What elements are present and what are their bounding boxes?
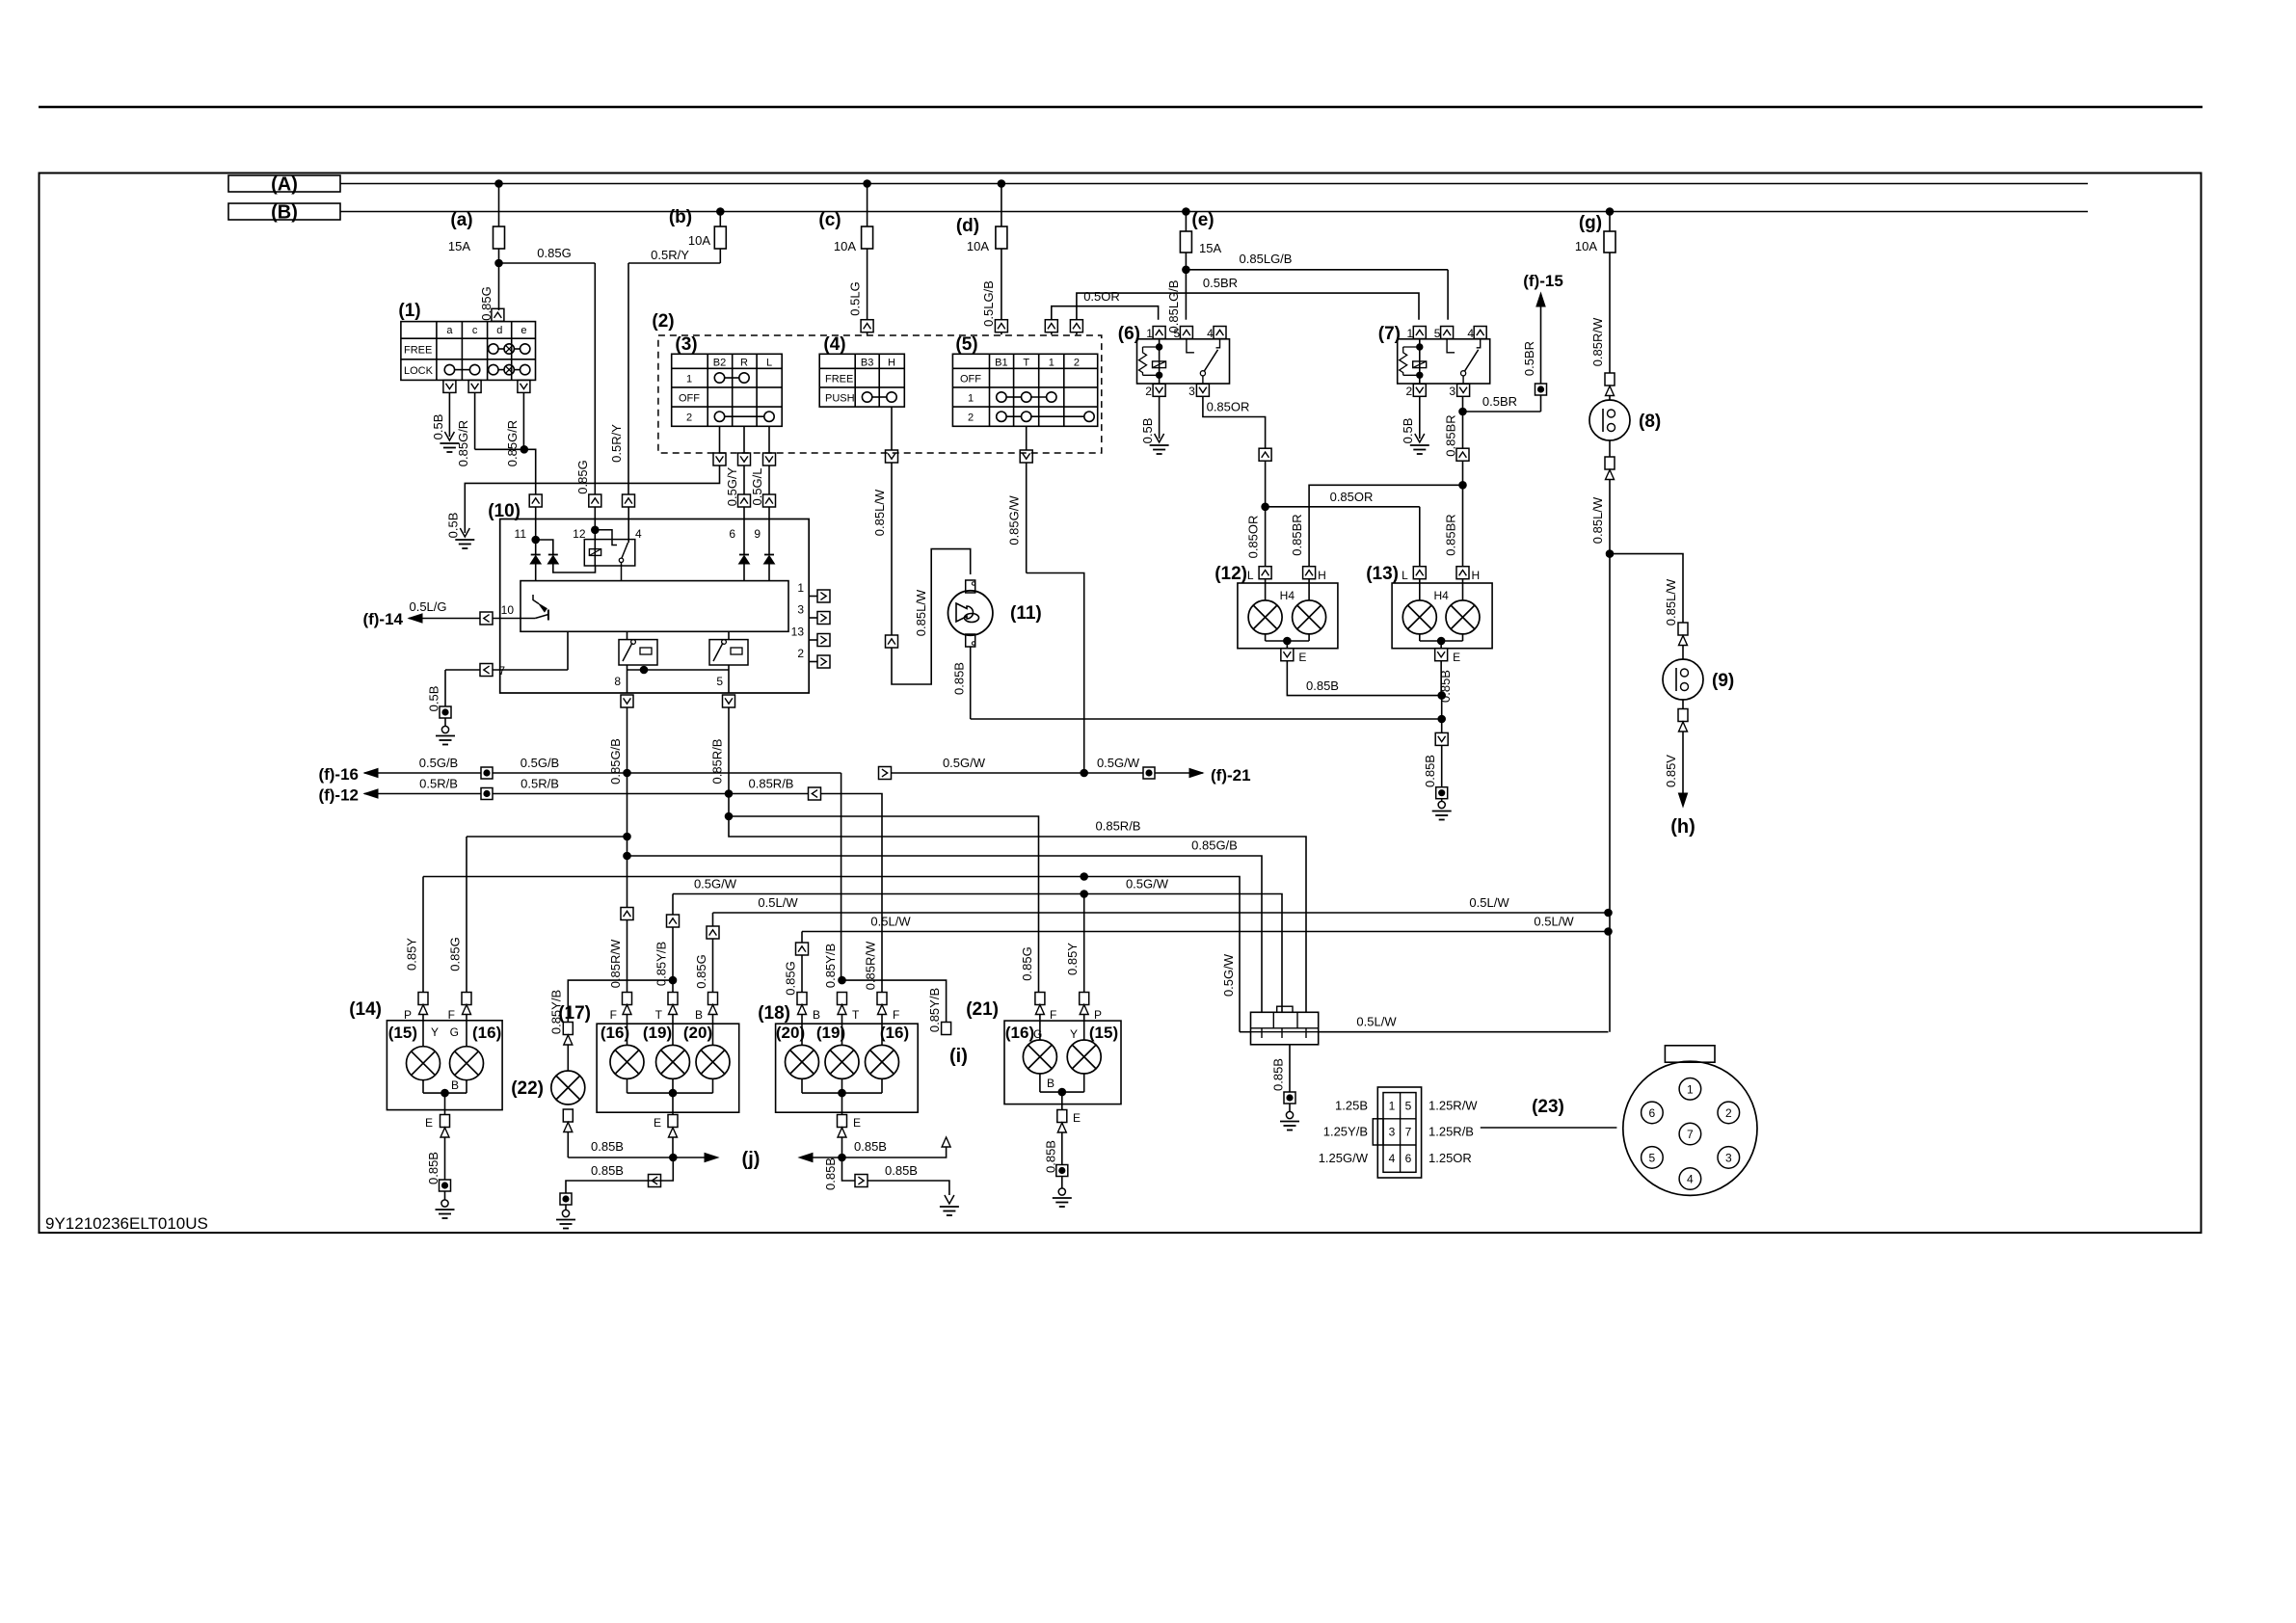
svg-text:c: c: [472, 325, 478, 336]
row R2 0.5G/W to lamp (17) T and block: [673, 894, 1282, 1013]
svg-text:H4: H4: [1280, 589, 1295, 602]
bus (B) wire: [340, 211, 2088, 213]
svg-text:(20): (20): [776, 1024, 805, 1042]
wire branch to lamp (18) T: [841, 773, 842, 980]
svg-text:0.85L/W: 0.85L/W: [872, 489, 887, 536]
ground under lamp unit 21: [1058, 1188, 1065, 1195]
wire 0.85Y down to lamp (21) P: [1083, 894, 1085, 994]
svg-text:1: 1: [1687, 1082, 1694, 1096]
svg-text:10A: 10A: [1575, 239, 1597, 253]
svg-text:0.85G/R: 0.85G/R: [456, 420, 470, 466]
svg-text:(13): (13): [1366, 564, 1399, 584]
svg-text:0.85OR: 0.85OR: [1246, 516, 1261, 559]
ground under flasher pin7: [441, 726, 448, 732]
svg-text:(e): (e): [1191, 210, 1214, 230]
svg-text:0.85B: 0.85B: [885, 1163, 918, 1178]
connector block: [1251, 1012, 1319, 1045]
svg-text:0.5G/B: 0.5G/B: [419, 756, 458, 770]
svg-text:0.85G/W: 0.85G/W: [1007, 495, 1022, 545]
wire 0.85G to lamp (18) B: [801, 932, 803, 944]
headlight (13) E junction: [1419, 634, 1421, 641]
wire 0.85L/W horn switch to horn: [891, 463, 893, 635]
svg-text:0.5L/W: 0.5L/W: [758, 895, 798, 910]
svg-text:(i): (i): [949, 1046, 968, 1067]
svg-text:3: 3: [1188, 385, 1195, 398]
row to lamp (14) F: [467, 836, 627, 838]
wire 0.85B headlight (13) E to ground: [1440, 661, 1442, 696]
fuse (e) 15A: [1183, 208, 1190, 216]
svg-text:10A: 10A: [834, 239, 856, 253]
flasher internal relay: [584, 540, 635, 566]
row 0.5L/W upper: [713, 912, 1609, 914]
svg-text:(3): (3): [675, 334, 697, 355]
wire 0.5B relay(6) pin2 to ground: [1159, 397, 1161, 439]
flasher right pin connectors 1 3 13 2: [809, 596, 817, 598]
svg-text:0.85Y/B: 0.85Y/B: [654, 942, 669, 986]
svg-text:11: 11: [515, 527, 527, 541]
key switch (1) table: [401, 322, 536, 381]
lamp (15) Y: [422, 1015, 424, 1047]
svg-text:(16): (16): [472, 1024, 501, 1042]
svg-text:H: H: [888, 358, 895, 369]
svg-text:0.85OR: 0.85OR: [1207, 400, 1250, 414]
svg-text:0.85Y: 0.85Y: [1065, 943, 1080, 975]
svg-text:0.85B: 0.85B: [591, 1163, 624, 1178]
lamp unit (17) box: [597, 1024, 739, 1112]
svg-text:2: 2: [1074, 358, 1080, 369]
svg-text:(5): (5): [955, 334, 977, 355]
svg-text:0.85V: 0.85V: [1664, 755, 1678, 787]
wire 0.85BR to headlight (12) H: [1309, 485, 1462, 566]
fuse (d) 10A: [998, 180, 1005, 188]
svg-text:7: 7: [498, 664, 505, 678]
bus (A) wire: [340, 183, 2088, 185]
svg-text:E: E: [425, 1116, 433, 1130]
svg-text:d: d: [496, 325, 502, 336]
svg-text:5: 5: [716, 675, 723, 688]
svg-text:0.85BR: 0.85BR: [1444, 514, 1458, 555]
lamp (16) G: [466, 1015, 467, 1047]
flasher pin 12 to internal relay: [594, 507, 596, 530]
relay (7) coil: [1419, 339, 1421, 347]
switch (5) col-1 connector to 0.5OR: [1045, 320, 1057, 333]
page rule: [39, 106, 2203, 109]
switch (5) row-2 contacts: [997, 412, 1006, 421]
svg-text:0.5B: 0.5B: [1140, 418, 1155, 444]
svg-text:OFF: OFF: [679, 393, 700, 405]
svg-text:(8): (8): [1639, 412, 1661, 432]
switch (5) T output: [1026, 426, 1028, 450]
svg-text:0.5BR: 0.5BR: [1482, 394, 1517, 409]
svg-text:B2: B2: [713, 358, 726, 369]
flasher bottom internal relays: [619, 640, 657, 665]
wire 0.85L/W below (8): [1609, 480, 1611, 554]
lamps (20)(19)(16) in unit 18: [801, 1015, 803, 1046]
fuse (c) 10A: [864, 180, 871, 188]
headlight (12) box: [1238, 583, 1338, 649]
wire 0.85V to (h): [1682, 732, 1684, 800]
svg-text:(22): (22): [511, 1078, 544, 1099]
branch to lamp (22): [568, 980, 673, 1022]
svg-text:1.25R/W: 1.25R/W: [1428, 1099, 1478, 1113]
svg-text:2: 2: [968, 412, 974, 424]
switch (3) row-1 contacts: [714, 373, 724, 383]
wire 0.85LG/B fuse(e) to relay(6) pin5: [1185, 270, 1187, 320]
row 0.85G/B: [624, 852, 631, 860]
wire 0.5G/W to (f)-21: [879, 767, 892, 780]
svg-text:0.85L/W: 0.85L/W: [1664, 578, 1678, 625]
svg-text:(f)-12: (f)-12: [318, 786, 359, 805]
svg-text:(18): (18): [758, 1003, 790, 1024]
svg-text:T: T: [852, 1008, 860, 1022]
wire 0.85R/W pin8 wire continues to (17) F: [627, 773, 628, 908]
svg-text:0.85Y: 0.85Y: [405, 938, 419, 971]
flasher pin 6/9 diodes: [743, 507, 745, 555]
svg-text:6: 6: [729, 527, 735, 541]
lamp unit 18 E: [838, 1115, 847, 1128]
lamp (14) terminals: [418, 993, 428, 1005]
svg-text:B: B: [451, 1078, 459, 1092]
svg-text:(g): (g): [1579, 213, 1602, 233]
wire 0.85OR to headlight (13) L: [1266, 506, 1420, 508]
svg-text:(15): (15): [388, 1024, 417, 1042]
svg-text:0.85G/B: 0.85G/B: [608, 738, 623, 785]
svg-text:(11): (11): [1010, 603, 1042, 624]
svg-text:a: a: [446, 325, 453, 336]
wire 0.5B flasher pin7 to ground: [445, 669, 480, 671]
svg-text:0.85G: 0.85G: [575, 460, 590, 493]
svg-text:0.85L/W: 0.85L/W: [914, 589, 928, 636]
svg-text:(16): (16): [601, 1024, 629, 1042]
wire 0.85LG/B fuse(e) to relay(7) pin5: [1186, 269, 1448, 271]
wire 0.5BR to (f)-15: [1463, 411, 1541, 412]
ground under B2 wire: [460, 528, 469, 537]
light switch (5) table: [952, 354, 1097, 426]
svg-text:H: H: [1472, 569, 1481, 582]
svg-text:2: 2: [1725, 1106, 1732, 1120]
flasher pin 4 wire: [627, 507, 629, 543]
headlight (13) connectors L H: [1413, 567, 1426, 579]
svg-text:10: 10: [501, 603, 515, 617]
wire 0.85B (18) E to (i) pin: [842, 1147, 947, 1157]
svg-text:0.5LG/B: 0.5LG/B: [981, 280, 996, 327]
ground under lamp (14): [441, 1200, 448, 1207]
svg-text:0.85G/R: 0.85G/R: [505, 420, 520, 466]
svg-text:2: 2: [686, 412, 692, 424]
svg-text:0.5BR: 0.5BR: [1203, 276, 1238, 290]
ground under relay (6): [1155, 434, 1164, 442]
svg-text:(1): (1): [398, 301, 420, 321]
relay (7) contact: [1447, 339, 1455, 353]
svg-text:T: T: [1023, 358, 1029, 369]
svg-text:0.5G/W: 0.5G/W: [1126, 877, 1169, 891]
key switch (1) FREE row contacts: [489, 344, 498, 354]
wire 0.85OR to headlight (12) L: [1265, 507, 1267, 567]
wire 0.85B (18) to (j) arrow: [813, 1157, 842, 1158]
ground under lamp unit 17: [562, 1210, 569, 1216]
svg-text:G: G: [450, 1025, 459, 1039]
svg-text:1.25Y/B: 1.25Y/B: [1323, 1125, 1368, 1139]
svg-text:0.85R/W: 0.85R/W: [1590, 317, 1605, 366]
svg-text:0.5OR: 0.5OR: [1083, 289, 1120, 304]
svg-text:E: E: [1453, 651, 1460, 664]
headlight (13) box: [1392, 583, 1492, 649]
svg-text:E: E: [654, 1116, 661, 1130]
svg-text:(19): (19): [643, 1024, 672, 1042]
svg-text:3: 3: [1725, 1151, 1732, 1164]
svg-text:E: E: [1073, 1111, 1081, 1125]
ground under key switch: [444, 432, 454, 440]
svg-text:B: B: [1047, 1077, 1055, 1090]
wire 0.85Y/B lamp (18) T branch to (i): [839, 976, 846, 984]
svg-text:R: R: [740, 358, 748, 369]
svg-text:5: 5: [1649, 1151, 1656, 1164]
svg-text:(j): (j): [742, 1149, 761, 1170]
wire 0.85BR relay(7) pin3 down: [1462, 412, 1464, 448]
svg-text:6: 6: [1405, 1152, 1412, 1165]
wire 0.85Y/B to lamp (17) T: [672, 894, 674, 916]
svg-text:FREE: FREE: [404, 345, 432, 357]
wire 0.5R/Y fuse(b) to flasher pin4: [628, 262, 720, 264]
svg-text:0.85G/B: 0.85G/B: [1191, 838, 1238, 853]
wire 0.85B to (j): [673, 1157, 712, 1158]
switch (3) row-2 contacts: [714, 412, 724, 421]
lamp unit (18) box: [776, 1024, 919, 1112]
switch (4) PUSH contacts: [862, 392, 871, 402]
svg-text:(f)-14: (f)-14: [362, 610, 403, 628]
svg-text:0.85R/W: 0.85R/W: [864, 941, 878, 990]
row 0.85R/B right segment: [729, 816, 1306, 1012]
flasher pin 11 diodes: [535, 507, 537, 540]
wire 0.85B headlight (12) E: [1287, 661, 1441, 696]
wire 0.85G/R key e: [522, 392, 524, 449]
svg-text:0.85B: 0.85B: [823, 1157, 838, 1190]
flasher pin 10 connector to (f)-14: [480, 612, 493, 625]
wire 0.85B horn to ground bus: [970, 647, 972, 719]
svg-text:5: 5: [1174, 327, 1181, 340]
row R1 to lamp (14) P and block: [423, 877, 1240, 1032]
svg-text:2: 2: [797, 647, 804, 660]
svg-text:F: F: [1050, 1008, 1056, 1022]
flasher (10) top connectors: [529, 494, 542, 507]
svg-text:4: 4: [1389, 1152, 1396, 1165]
svg-text:F: F: [610, 1008, 617, 1022]
lamp unit 21 B junction: [1039, 1074, 1041, 1092]
svg-text:(10): (10): [488, 501, 521, 521]
svg-text:0.85B: 0.85B: [1271, 1058, 1286, 1091]
headlight (13) lamps: [1419, 579, 1421, 600]
svg-text:0.85BR: 0.85BR: [1290, 514, 1304, 555]
wire from (9) branch down to lamps rows: [1609, 554, 1611, 1032]
svg-text:5: 5: [1434, 327, 1441, 340]
wire 0.85BR to headlight (13) H: [1462, 485, 1464, 566]
svg-text:7: 7: [1405, 1126, 1412, 1139]
svg-text:F: F: [448, 1008, 455, 1022]
svg-text:0.85G: 0.85G: [694, 954, 708, 988]
connector (23) lead line: [1481, 1127, 1617, 1129]
flasher pin 7 connector: [480, 664, 493, 677]
lamps (16)(19)(20) in unit 17: [627, 1015, 628, 1046]
relay (7) pin connectors: [1413, 327, 1426, 339]
svg-text:(21): (21): [966, 999, 999, 1020]
svg-text:0.5G/W: 0.5G/W: [694, 877, 737, 891]
svg-text:0.5BR: 0.5BR: [1522, 341, 1536, 376]
svg-text:P: P: [404, 1008, 412, 1022]
svg-text:1: 1: [1146, 327, 1153, 340]
svg-text:P: P: [1094, 1008, 1102, 1022]
svg-text:0.85B: 0.85B: [952, 662, 967, 695]
headlight (12) E junction: [1265, 634, 1267, 641]
svg-text:2: 2: [1145, 385, 1152, 398]
svg-text:(2): (2): [652, 311, 674, 332]
wire 0.85G/W light switch T down: [1026, 463, 1028, 573]
svg-text:L: L: [1402, 569, 1408, 582]
svg-text:H4: H4: [1433, 589, 1449, 602]
svg-text:(d): (d): [956, 216, 979, 236]
connector above light switch (5) B1: [995, 320, 1007, 333]
svg-text:7: 7: [1687, 1128, 1694, 1141]
horn switch (4) table: [819, 354, 904, 407]
wire 0.85G/B from pin 8: [627, 707, 628, 773]
svg-text:B3: B3: [861, 358, 873, 369]
svg-text:H: H: [1318, 569, 1326, 582]
svg-text:0.5B: 0.5B: [1401, 418, 1415, 444]
bus label (A): [228, 175, 340, 192]
svg-text:1: 1: [1049, 358, 1055, 369]
svg-text:G: G: [1033, 1027, 1042, 1041]
fuse (b) 10A: [717, 208, 725, 216]
lamp (18) terminals B T F: [797, 993, 807, 1005]
svg-text:5: 5: [1405, 1100, 1412, 1113]
svg-text:B: B: [813, 1008, 820, 1022]
lamp unit (14) box: [387, 1021, 502, 1110]
bus label (B): [228, 203, 340, 220]
row 0.5L/W lower: [802, 931, 1609, 933]
svg-text:0.5LG: 0.5LG: [848, 281, 863, 315]
svg-text:0.85Y/B: 0.85Y/B: [823, 944, 838, 988]
svg-text:0.85B: 0.85B: [1306, 678, 1339, 693]
switch unit (2) dashed box: [658, 335, 1102, 453]
svg-text:10A: 10A: [967, 239, 989, 253]
svg-text:(a): (a): [450, 210, 472, 230]
svg-text:1: 1: [1406, 327, 1413, 340]
svg-text:L: L: [1247, 569, 1254, 582]
relay (6) box: [1137, 339, 1230, 384]
svg-text:10A: 10A: [688, 233, 710, 248]
headlight (12) lamps: [1265, 579, 1267, 600]
svg-text:0.85OR: 0.85OR: [1330, 490, 1374, 504]
lamp unit 17 common: [627, 1078, 628, 1093]
lamp (22): [563, 1023, 573, 1035]
svg-text:(4): (4): [823, 334, 845, 355]
wire 0.85OR relay(6) pin3: [1203, 397, 1266, 449]
svg-text:0.85LG/B: 0.85LG/B: [1240, 252, 1293, 266]
connector above horn switch (4): [861, 320, 873, 333]
junction key c/e: [475, 448, 524, 450]
wire 0.85B block to ground: [1289, 1045, 1291, 1092]
round 7-pin connector: [1665, 1046, 1715, 1062]
svg-text:0.85G: 0.85G: [784, 961, 798, 995]
svg-text:LOCK: LOCK: [404, 365, 434, 377]
flasher inner block: [521, 581, 788, 632]
svg-text:(7): (7): [1378, 324, 1401, 344]
relay (7) resistor: [1400, 347, 1407, 375]
svg-text:0.5L/W: 0.5L/W: [870, 915, 911, 929]
svg-text:3: 3: [797, 603, 804, 617]
svg-text:(h): (h): [1670, 816, 1695, 838]
wire 0.85R/B from pin 5: [728, 707, 730, 794]
svg-text:0.85R/B: 0.85R/B: [749, 777, 794, 791]
lamp (17) terminals F T B: [623, 993, 632, 1005]
flasher unit (10) box: [500, 519, 810, 694]
svg-text:B: B: [695, 1008, 703, 1022]
svg-text:4: 4: [635, 527, 642, 541]
svg-text:0.5R/Y: 0.5R/Y: [609, 424, 624, 463]
svg-text:4: 4: [1467, 327, 1474, 340]
relay (7) box: [1398, 339, 1490, 384]
svg-text:(6): (6): [1118, 324, 1140, 344]
svg-text:0.5B: 0.5B: [431, 414, 445, 440]
wire 0.85G fuse(a) to key switch: [498, 263, 500, 310]
wire 0.85G/R key c: [474, 392, 476, 449]
svg-text:0.5L/G: 0.5L/G: [409, 599, 446, 614]
svg-text:0.5R/B: 0.5R/B: [419, 777, 458, 791]
wire 0.5B key a to ground: [448, 392, 450, 437]
svg-text:0.5R/Y: 0.5R/Y: [651, 248, 689, 262]
flasher internal bottom wiring: [627, 631, 628, 639]
svg-text:3: 3: [1389, 1126, 1396, 1139]
svg-text:(14): (14): [349, 999, 382, 1020]
svg-text:13: 13: [791, 625, 805, 639]
wire 0.85B lamp22 to (j) junction: [568, 1157, 673, 1158]
svg-text:0.5L/W: 0.5L/W: [1534, 915, 1574, 929]
fuse (g) 10A: [1606, 208, 1614, 216]
svg-text:1.25OR: 1.25OR: [1428, 1151, 1472, 1165]
wire 0.5L/W block to (9) wire: [1240, 1031, 1251, 1033]
svg-text:E: E: [1298, 651, 1306, 664]
svg-text:1: 1: [968, 393, 974, 405]
lamp unit 21 E: [1057, 1110, 1067, 1123]
wire 0.85R/B to lamp (18) F: [820, 794, 882, 994]
svg-text:0.5G/B: 0.5G/B: [521, 756, 559, 770]
switch (8): [1605, 373, 1615, 386]
svg-text:(b): (b): [669, 207, 692, 227]
svg-text:(16): (16): [1005, 1024, 1034, 1042]
switch (5) col-2 connector to 0.5BR: [1070, 320, 1082, 333]
svg-text:0.85Y/B: 0.85Y/B: [927, 988, 942, 1032]
svg-text:1: 1: [797, 581, 804, 595]
wire 0.5B relay(7) pin2 to ground: [1419, 397, 1421, 439]
svg-text:Y: Y: [1070, 1027, 1078, 1041]
svg-text:6: 6: [1649, 1106, 1656, 1120]
svg-text:OFF: OFF: [960, 374, 981, 386]
relay (6) coil: [1159, 339, 1161, 347]
svg-text:0.85G: 0.85G: [1020, 946, 1034, 980]
svg-text:0.5G/W: 0.5G/W: [1221, 953, 1236, 997]
switch (9): [1663, 659, 1703, 700]
wire 0.5G/L to flasher pin9: [768, 466, 770, 494]
wire 0.85G to lamp (17) B: [712, 913, 714, 926]
svg-text:0.85R/B: 0.85R/B: [710, 739, 725, 785]
svg-text:0.85L/W: 0.85L/W: [1590, 496, 1605, 544]
turn signal switch (3) table: [672, 354, 783, 426]
svg-text:9: 9: [754, 527, 761, 541]
svg-text:L: L: [766, 358, 772, 369]
svg-text:Y: Y: [431, 1025, 439, 1039]
svg-text:4: 4: [1687, 1173, 1694, 1186]
6-pin connector: [1377, 1087, 1421, 1178]
svg-text:(f)-16: (f)-16: [318, 765, 359, 784]
